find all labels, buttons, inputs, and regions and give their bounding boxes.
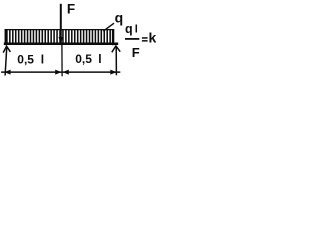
svg-text:F: F	[67, 2, 75, 17]
svg-text:0,5: 0,5	[75, 52, 92, 66]
svg-text:l: l	[41, 52, 44, 66]
svg-text:F: F	[132, 45, 140, 60]
svg-text:l: l	[98, 52, 101, 66]
svg-text:q: q	[125, 22, 133, 36]
svg-text:k: k	[149, 29, 157, 45]
svg-text:l: l	[135, 23, 138, 35]
svg-text:q: q	[115, 9, 124, 25]
svg-text:0,5: 0,5	[17, 52, 34, 66]
